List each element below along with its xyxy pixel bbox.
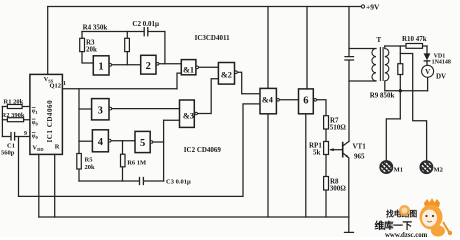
svg-text:V: V xyxy=(425,68,430,76)
svg-text:T: T xyxy=(377,36,382,44)
svg-text:R1 20k: R1 20k xyxy=(4,99,24,106)
svg-text:&2: &2 xyxy=(221,71,232,80)
svg-text:M2: M2 xyxy=(434,166,443,173)
svg-text:1: 1 xyxy=(63,81,66,87)
svg-text:C3 0.01μ: C3 0.01μ xyxy=(166,179,191,186)
svg-text:510Ω: 510Ω xyxy=(330,124,347,132)
svg-text:R4 350k: R4 350k xyxy=(83,24,108,32)
svg-text:DV: DV xyxy=(436,73,446,81)
svg-text:φ0: φ0 xyxy=(32,134,39,141)
svg-text:&3: &3 xyxy=(183,111,194,120)
svg-text:Q12: Q12 xyxy=(50,83,62,90)
svg-text:5: 5 xyxy=(140,138,145,149)
svg-text:6: 6 xyxy=(303,95,308,106)
svg-text:3: 3 xyxy=(98,105,103,116)
svg-text:M1: M1 xyxy=(394,166,403,173)
svg-text:&1: &1 xyxy=(183,65,194,74)
svg-text:IC2 CD4069: IC2 CD4069 xyxy=(184,146,222,154)
svg-text:IC3CD4011: IC3CD4011 xyxy=(195,34,231,42)
svg-text:IC1 CD4060: IC1 CD4060 xyxy=(46,100,54,143)
svg-text:1: 1 xyxy=(98,61,103,72)
svg-text:+9V: +9V xyxy=(366,3,380,12)
svg-text:C2 0.01μ: C2 0.01μ xyxy=(132,20,159,28)
svg-text:VT1: VT1 xyxy=(353,143,367,151)
svg-text:R6 1M: R6 1M xyxy=(127,160,146,167)
svg-text:R5: R5 xyxy=(85,157,94,164)
svg-text:300Ω: 300Ω xyxy=(330,185,347,193)
svg-text:20k: 20k xyxy=(86,46,97,54)
svg-text:965: 965 xyxy=(354,153,365,161)
svg-text:&4: &4 xyxy=(262,95,273,104)
svg-text:560p: 560p xyxy=(1,150,15,157)
svg-text:www.dzsc.com: www.dzsc.com xyxy=(385,232,428,237)
svg-text:维库一下: 维库一下 xyxy=(375,219,413,232)
svg-text:R2 390k: R2 390k xyxy=(2,112,25,119)
svg-text:4: 4 xyxy=(98,137,104,148)
svg-text:9: 9 xyxy=(24,131,27,137)
svg-text:2: 2 xyxy=(146,61,151,72)
svg-text:1N4148: 1N4148 xyxy=(432,60,451,66)
svg-text:φ0: φ0 xyxy=(32,120,39,127)
svg-text:R9 850k: R9 850k xyxy=(370,92,395,100)
svg-text:20k: 20k xyxy=(85,164,96,171)
svg-text:R: R xyxy=(55,144,60,151)
svg-text:φ1: φ1 xyxy=(32,109,39,116)
svg-text:R10 47k: R10 47k xyxy=(402,35,427,43)
svg-text:5k: 5k xyxy=(313,149,321,157)
svg-text:C1: C1 xyxy=(7,143,15,150)
